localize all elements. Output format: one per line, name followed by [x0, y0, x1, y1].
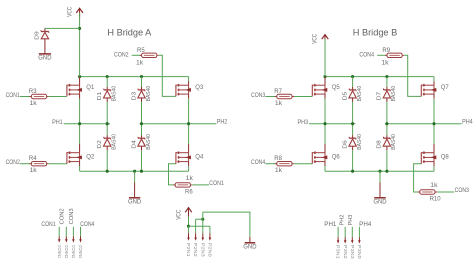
wire Q5 source to PH rail	[324, 99, 326, 124]
svg-text:R4: R4	[29, 156, 37, 162]
svg-text:CONN3: CONN3	[71, 245, 76, 259]
wire GND stem H Bridge A	[134, 171, 136, 182]
transistor Q5	[312, 84, 340, 96]
wire pin2 to pin3 net	[196, 218, 203, 220]
pin name CONN2	[64, 245, 69, 259]
wire GND rail H Bridge A	[80, 170, 189, 172]
pin name CONN3	[71, 245, 76, 259]
wire D9 cathode lead	[44, 28, 46, 31]
svg-text:VCC: VCC	[68, 6, 74, 17]
node PH1 at connector SV3	[324, 222, 337, 228]
wire CON4 to R9	[377, 54, 389, 56]
svg-text:Q6: Q6	[332, 155, 341, 161]
pin name CONN1	[57, 245, 62, 259]
wire D1 cathode to top rail	[106, 77, 108, 87]
wire Q7 source to PH rail	[433, 98, 435, 123]
wire Q8 source lead	[433, 162, 435, 166]
wire CON1 to R3	[20, 96, 31, 98]
wire CON1 to connector pin	[58, 227, 60, 237]
pin name P2N3	[200, 243, 205, 258]
diode D4 BAS40	[131, 134, 152, 150]
pin CONN4 of connector SV1	[79, 236, 82, 242]
wire Q1 source lead	[79, 94, 81, 99]
wire CON2 to connector pin	[65, 227, 67, 237]
svg-text:CON1: CON1	[6, 93, 21, 99]
junction GND rail at D4	[140, 170, 143, 173]
svg-text:CONN4: CONN4	[78, 245, 83, 259]
wire GND rail H Bridge B	[325, 170, 434, 172]
wire D2 cathode to PH rail	[106, 124, 108, 136]
wire D1 cathode lead	[106, 87, 108, 90]
node PH4 at connector SV3	[359, 222, 372, 228]
wire Q8 gate to R10	[414, 164, 422, 192]
wire D8 anode lead	[386, 146, 388, 150]
wire VCC top rail H Bridge B	[325, 76, 434, 78]
wire D3 anode to PH rail	[141, 102, 143, 124]
svg-text:D6: D6	[342, 140, 348, 148]
wire ground pin lead SV2	[249, 237, 251, 243]
svg-text:Q4: Q4	[195, 155, 204, 161]
wire pin2 drop	[195, 219, 197, 233]
transistor Q3	[176, 84, 204, 96]
pin CONN2 of connector SV1	[65, 236, 68, 242]
wire Q7 source lead	[433, 94, 435, 98]
svg-text:D8: D8	[377, 140, 383, 148]
wire PH1 to connector pin	[337, 227, 339, 237]
wire D3 cathode to top rail	[141, 77, 143, 87]
svg-text:BAS40: BAS40	[391, 86, 397, 102]
transistor Q6	[312, 151, 340, 163]
wire D8 anode to GND rail	[386, 150, 388, 171]
svg-text:1k: 1k	[136, 61, 144, 67]
junction top rail at D1	[106, 75, 109, 78]
wire Q4 gate to R6	[169, 164, 176, 185]
svg-text:1k: 1k	[275, 168, 283, 174]
power VCC bridge B	[312, 33, 328, 44]
junction PH4 at Q7/Q8	[432, 122, 435, 125]
pin name P3N2	[343, 245, 348, 260]
wire Q2 source lead	[79, 162, 81, 166]
wire Q6 source lead	[324, 162, 326, 166]
svg-text:1k: 1k	[30, 101, 38, 107]
junction GND rail at GND stem	[133, 170, 136, 173]
diode D2 BAS40	[97, 134, 118, 150]
ground under D9	[38, 54, 52, 62]
power VCC bridge A	[68, 6, 83, 17]
pin P3N0 of connector SV3	[358, 237, 361, 243]
ground H Bridge A	[128, 198, 142, 206]
node CON3 at connector SV1	[69, 208, 75, 224]
transistor Q8	[421, 151, 449, 163]
junction VCC to D9 tap	[78, 27, 81, 30]
svg-text:Q5: Q5	[332, 85, 341, 91]
svg-text:Q1: Q1	[86, 85, 95, 91]
wire Q1 drain lead	[79, 77, 81, 86]
svg-text:R8: R8	[274, 156, 282, 162]
wire VCC top rail H Bridge A	[80, 76, 189, 78]
wire Q2 drain from PH rail	[79, 124, 81, 144]
wire D2 anode to GND rail	[106, 150, 108, 171]
wire GND pin lead H Bridge A	[134, 183, 136, 198]
pin P2N2 of connector SV2	[194, 233, 197, 241]
wire CON2 to R4	[20, 163, 31, 165]
svg-text:CON2: CON2	[114, 53, 129, 59]
svg-text:D1: D1	[97, 92, 103, 100]
svg-text:D9: D9	[34, 31, 40, 39]
junction pin2/pin3 GND net	[201, 218, 204, 221]
wire pin4 drop	[209, 226, 211, 233]
junction PH1 at D1/D2	[106, 122, 109, 125]
pin name P2N0	[208, 243, 213, 258]
wire Q1 source to PH rail	[79, 99, 81, 124]
svg-text:CONN2: CONN2	[64, 245, 69, 259]
wire D5 anode to PH rail	[352, 102, 354, 124]
junction top rail at Q1 drain	[78, 75, 81, 78]
wire R9 to Q7 gate	[404, 55, 421, 96]
junction GND rail at D2	[106, 170, 109, 173]
wire Q2 source to GND rail	[79, 166, 81, 171]
svg-text:R5: R5	[137, 48, 145, 54]
wire top rail down to Q3 drain	[188, 77, 190, 82]
wire VCC stem bridge B	[324, 39, 326, 76]
svg-text:CON3: CON3	[455, 188, 470, 194]
junction top rail at D3	[140, 75, 143, 78]
node CON3 (gate net Q5)	[251, 93, 266, 99]
title H Bridge A	[107, 28, 152, 38]
svg-text:CON1: CON1	[41, 222, 56, 228]
resistor R5 1k	[136, 48, 159, 67]
wire D9 anode to GND	[44, 39, 46, 54]
svg-text:CON3: CON3	[69, 208, 75, 224]
junction PH3 at Q5/Q6	[323, 122, 326, 125]
wire Q2 drain lead	[79, 144, 81, 153]
wire Q6 drain lead	[324, 144, 326, 153]
svg-text:PH4: PH4	[462, 119, 473, 125]
resistor R6 1k	[173, 176, 194, 196]
wire Q8 drain lead	[433, 144, 435, 153]
node CON4 (gate net top)	[359, 53, 374, 59]
pin name P2N2	[193, 243, 198, 258]
junction PH2 at D3/D4	[140, 122, 143, 125]
junction PH1 at Q1/Q2	[78, 122, 81, 125]
wire VCC net pin1 to pin4	[189, 225, 210, 227]
pin name P2N1	[186, 243, 191, 258]
svg-text:R3: R3	[29, 89, 37, 95]
wire D7 cathode to top rail	[386, 77, 388, 87]
svg-text:PH2: PH2	[217, 119, 228, 125]
svg-text:Q3: Q3	[195, 85, 204, 91]
resistor R8 1k	[274, 156, 294, 174]
svg-text:P2N2: P2N2	[193, 243, 198, 258]
svg-text:P3N2: P3N2	[343, 245, 348, 260]
junction pin1/pin4 VCC net	[187, 225, 190, 228]
svg-text:D2: D2	[97, 140, 103, 148]
diode D9 (supply clamp)	[34, 30, 48, 40]
diode D6 BAS40	[342, 134, 363, 150]
pin P3N1 of connector SV3	[337, 237, 340, 243]
svg-text:GND: GND	[38, 55, 52, 62]
wire pin1 drop	[188, 226, 190, 233]
svg-text:D3: D3	[131, 92, 137, 100]
wire Q3 drain lead	[188, 82, 190, 86]
junction GND rail at D6	[351, 170, 354, 173]
wire Q6 drain from PH rail	[324, 124, 326, 144]
wire D7 anode lead	[386, 98, 388, 102]
pin name CONN4	[78, 245, 83, 259]
wire PH4 rail	[385, 123, 462, 125]
wire R5 to Q3 gate	[159, 55, 176, 96]
svg-text:CON4: CON4	[80, 222, 95, 228]
diode D5 BAS40	[342, 86, 363, 102]
svg-text:CON4: CON4	[359, 53, 374, 59]
wire R6 to CON1	[192, 184, 209, 186]
svg-text:BAS40: BAS40	[357, 86, 363, 102]
wire Q4 source to GND rail	[188, 166, 190, 171]
svg-text:PH1: PH1	[52, 120, 63, 126]
wire D6 cathode to PH rail	[352, 124, 354, 136]
node CON4 at connector SV1	[80, 222, 95, 228]
resistor R4 1k	[29, 156, 49, 174]
svg-text:GND: GND	[243, 244, 257, 251]
junction PH4 at D7/D8	[385, 122, 388, 125]
pin name P3N3	[350, 245, 355, 260]
ground at connector SV2	[243, 243, 257, 251]
svg-text:1k: 1k	[186, 176, 194, 182]
junction top rail at Q5 drain	[323, 75, 326, 78]
svg-text:BAS40: BAS40	[391, 134, 397, 150]
wire PH2 to connector pin	[344, 227, 346, 237]
wire D4 cathode to PH rail	[141, 124, 143, 136]
junction GND rail at D8	[385, 170, 388, 173]
svg-text:1k: 1k	[381, 61, 389, 67]
junction GND rail at GND stem	[378, 170, 381, 173]
wire PH3 to connector pin	[351, 227, 353, 237]
wire VCC to D9	[45, 27, 80, 29]
wire CON4 to connector pin	[80, 227, 82, 237]
wire pin3 drop	[202, 212, 204, 233]
pin P2N1 of connector SV2	[187, 233, 190, 241]
svg-text:VCC: VCC	[177, 209, 183, 220]
junction PH3 at D5/D6	[351, 122, 354, 125]
wire D7 cathode lead	[386, 87, 388, 90]
svg-text:R7: R7	[274, 89, 282, 95]
node CON2 (gate net top)	[114, 53, 129, 59]
wire Q3 source to PH rail	[188, 98, 190, 123]
wire D2 anode lead	[106, 146, 108, 150]
pin CONN1 of connector SV1	[58, 236, 61, 242]
wire PH2 rail	[140, 123, 217, 125]
junction top rail at D7	[385, 75, 388, 78]
node CON1 at connector SV1	[41, 222, 56, 228]
wire Q6 source to GND rail	[324, 166, 326, 171]
svg-text:P3N3: P3N3	[350, 245, 355, 260]
wire D6 anode to GND rail	[352, 150, 354, 171]
pin name P3N1	[336, 245, 341, 260]
power VCC at connector SV2	[177, 208, 192, 220]
wire D5 cathode lead	[352, 87, 354, 90]
diode D1 BAS40	[97, 86, 118, 102]
svg-text:PH4: PH4	[359, 222, 372, 228]
wire R8 to Q6 gate	[294, 163, 312, 165]
resistor R10 1k	[418, 183, 441, 203]
svg-text:BAS40: BAS40	[112, 134, 118, 150]
junction top rail at D5	[351, 75, 354, 78]
resistor R3 1k	[29, 89, 49, 107]
wire PH4 to connector pin	[358, 227, 360, 237]
transistor Q1	[67, 84, 95, 96]
pin P2N0 of connector SV2	[209, 233, 212, 241]
node PH2 at connector SV3	[340, 214, 346, 225]
svg-text:R10: R10	[430, 197, 442, 203]
diode D3 BAS40	[131, 86, 152, 102]
wire GND net to ground symbol	[203, 212, 250, 237]
wire D3 cathode lead	[141, 87, 143, 90]
svg-text:P3N0: P3N0	[357, 245, 362, 260]
node CON2 (gate net Q2)	[6, 160, 21, 166]
svg-text:CON3: CON3	[251, 93, 266, 99]
svg-text:R9: R9	[382, 48, 390, 54]
wire PH3 rail	[309, 123, 355, 125]
svg-text:CON1: CON1	[209, 181, 224, 187]
wire D4 cathode lead	[141, 135, 143, 138]
svg-text:PH1: PH1	[324, 222, 337, 228]
svg-text:H Bridge A: H Bridge A	[107, 28, 152, 38]
svg-text:P3N1: P3N1	[336, 245, 341, 260]
wire D4 anode to GND rail	[141, 150, 143, 171]
node PH3 label	[298, 120, 309, 126]
node PH2 label	[217, 119, 228, 125]
svg-text:CONN1: CONN1	[57, 245, 62, 259]
wire Q3 source lead	[188, 94, 190, 98]
svg-text:P2N3: P2N3	[200, 243, 205, 258]
node CON3 (gate net Q8)	[455, 188, 470, 194]
resistor R7 1k	[274, 89, 294, 107]
diode D7 BAS40	[377, 86, 398, 102]
svg-text:GND: GND	[373, 199, 387, 206]
wire Q4 drain from PH rail	[188, 124, 190, 144]
pin P3N3 of connector SV3	[351, 237, 354, 243]
svg-text:CON2: CON2	[60, 208, 66, 224]
wire Q5 drain lead	[324, 77, 326, 86]
wire VCC stem bridge A	[79, 13, 81, 77]
svg-text:PH3: PH3	[348, 214, 354, 225]
wire CON4 to R8	[265, 163, 276, 165]
node CON1 (gate net Q1)	[6, 93, 21, 99]
svg-text:VCC: VCC	[312, 33, 318, 44]
pin CONN3 of connector SV1	[72, 236, 75, 242]
svg-text:CON4: CON4	[251, 160, 266, 166]
wire R3 to Q1 gate	[49, 96, 67, 98]
wire D8 cathode lead	[386, 135, 388, 138]
wire R7 to Q5 gate	[294, 96, 312, 98]
svg-text:Q7: Q7	[441, 85, 450, 91]
wire Q7 drain lead	[433, 82, 435, 86]
svg-text:P2N0: P2N0	[208, 243, 213, 258]
transistor Q2	[67, 151, 95, 163]
svg-text:D7: D7	[377, 92, 383, 100]
diode D8 BAS40	[377, 134, 398, 150]
wire CON2 to R5	[132, 54, 144, 56]
wire D2 cathode lead	[106, 135, 108, 138]
node CON4 (gate net Q6)	[251, 160, 266, 166]
node PH1 label	[52, 120, 63, 126]
wire Q8 drain from PH rail	[433, 124, 435, 144]
wire GND stem H Bridge B	[379, 171, 381, 182]
wire D6 cathode lead	[352, 135, 354, 138]
svg-text:1k: 1k	[30, 168, 38, 174]
wire GND pin lead H Bridge B	[379, 183, 381, 198]
pin P2N3 of connector SV2	[202, 233, 205, 241]
wire Q5 source lead	[324, 94, 326, 99]
svg-text:P2N1: P2N1	[186, 243, 191, 258]
wire Q4 source lead	[188, 162, 190, 166]
wire R10 to CON3	[437, 191, 454, 193]
wire D1 anode to PH rail	[106, 102, 108, 124]
svg-text:BAS40: BAS40	[146, 86, 152, 102]
wire D5 cathode to top rail	[352, 77, 354, 87]
svg-text:H Bridge B: H Bridge B	[353, 28, 397, 38]
title H Bridge B	[353, 28, 397, 38]
wire PH1 rail	[64, 123, 110, 125]
svg-text:1k: 1k	[430, 183, 438, 189]
svg-text:BAS40: BAS40	[146, 134, 152, 150]
node CON1 (gate net Q4)	[209, 181, 224, 187]
junction PH2 at Q3/Q4	[187, 122, 190, 125]
wire Q4 drain lead	[188, 144, 190, 153]
wire top rail down to Q7 drain	[433, 77, 435, 82]
wire D4 anode lead	[141, 146, 143, 150]
node PH4 label	[462, 119, 473, 125]
wire CON3 to connector pin	[72, 227, 74, 237]
wire D6 anode lead	[352, 146, 354, 150]
svg-text:PH3: PH3	[298, 120, 309, 126]
svg-text:D5: D5	[342, 92, 348, 100]
svg-text:BAS40: BAS40	[357, 134, 363, 150]
wire R4 to Q2 gate	[49, 163, 67, 165]
svg-text:BAS40: BAS40	[112, 86, 118, 102]
svg-text:PH2: PH2	[340, 214, 346, 225]
wire CON3 to R7	[265, 96, 276, 98]
node CON2 at connector SV1	[60, 208, 66, 224]
transistor Q7	[421, 84, 449, 96]
svg-text:R6: R6	[185, 190, 193, 196]
resistor R9 1k	[381, 48, 404, 67]
svg-text:GND: GND	[128, 199, 142, 206]
ground H Bridge B	[373, 198, 387, 206]
svg-text:1k: 1k	[275, 101, 283, 107]
svg-text:D4: D4	[131, 140, 137, 148]
wire D5 anode lead	[352, 98, 354, 102]
transistor Q4	[176, 151, 204, 163]
wire Q8 source to GND rail	[433, 166, 435, 171]
pin P3N2 of connector SV3	[344, 237, 347, 243]
svg-text:CON2: CON2	[6, 160, 21, 166]
pin name P3N0	[357, 245, 362, 260]
svg-text:Q8: Q8	[441, 155, 450, 161]
node PH3 at connector SV3	[348, 214, 354, 225]
svg-text:Q2: Q2	[86, 155, 95, 161]
wire D7 anode to PH rail	[386, 102, 388, 124]
wire D8 cathode to PH rail	[386, 124, 388, 136]
wire VCC to pin 1	[188, 217, 190, 227]
wire D3 anode lead	[141, 98, 143, 102]
wire D1 anode lead	[106, 98, 108, 102]
